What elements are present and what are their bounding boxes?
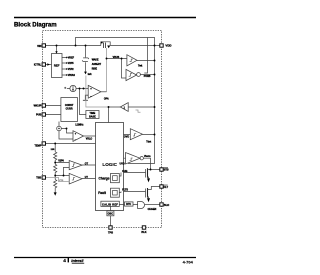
svg-text:Vterm: Vterm [144,155,151,158]
svg-text:CURR: CURR [66,108,73,111]
svg-text:UVD: UVD [120,162,125,165]
svg-text:WKUP: WKUP [34,105,42,108]
svg-text:OPA: OPA [104,98,109,101]
svg-text:Charge: Charge [99,176,110,180]
svg-text:PORB: PORB [144,76,151,78]
svg-text:4: 4 [63,258,66,264]
svg-text:VRLO: VRLO [86,139,93,141]
svg-text:1.2MHz: 1.2MHz [75,123,84,126]
svg-text:DTC: DTC [126,203,131,206]
svg-text:BLO: BLO [164,204,169,207]
svg-text:ICTRL: ICTRL [34,64,42,67]
svg-text:TSB: TSB [36,177,41,180]
svg-text:VBIAS: VBIAS [68,74,75,77]
svg-text:V2P0: V2P0 [58,160,64,162]
svg-text:VIN: VIN [37,45,41,48]
svg-text:VTS: VTS [59,180,64,182]
svg-text:Iwk: Iwk [88,74,92,76]
svg-text:Block Diagram: Block Diagram [14,21,57,28]
svg-text:PUB: PUB [36,114,41,117]
svg-text:BLK: BLK [141,231,146,234]
svg-text:Twk: Twk [138,65,143,67]
svg-text:12R: 12R [51,149,55,151]
svg-text:V2P5: V2P5 [68,63,74,65]
svg-text:OVD: OVD [124,135,129,138]
svg-text:intersil: intersil [71,259,84,263]
svg-text:Tdet: Tdet [146,141,151,144]
svg-text:CALIB REF: CALIB REF [102,202,118,206]
svg-text:Fault: Fault [98,191,107,195]
svg-text:TEMP: TEMP [34,145,41,148]
svg-text:FLTB: FLTB [122,189,128,191]
svg-text:VDD: VDD [165,44,171,48]
svg-text:CHG: CHG [122,171,127,173]
svg-text:CHGEN: CHGEN [148,208,157,211]
svg-text:VBUS: VBUS [113,56,120,59]
svg-text:OSC: OSC [108,213,114,216]
svg-text:V1P2: V1P2 [68,69,74,71]
svg-text:4-704: 4-704 [183,259,194,264]
svg-text:REF: REF [54,64,60,68]
svg-text:STB: STB [164,169,169,172]
svg-text:BASE: BASE [89,115,96,118]
svg-text:TPB: TPB [108,231,113,234]
svg-text:LOGIC: LOGIC [102,162,117,167]
svg-text:RISE: RISE [92,68,98,70]
svg-text:WAKE: WAKE [92,59,99,62]
svg-text:VREF: VREF [68,58,75,60]
svg-text:ASSERT: ASSERT [92,63,102,66]
svg-text:FLT: FLT [164,186,169,189]
